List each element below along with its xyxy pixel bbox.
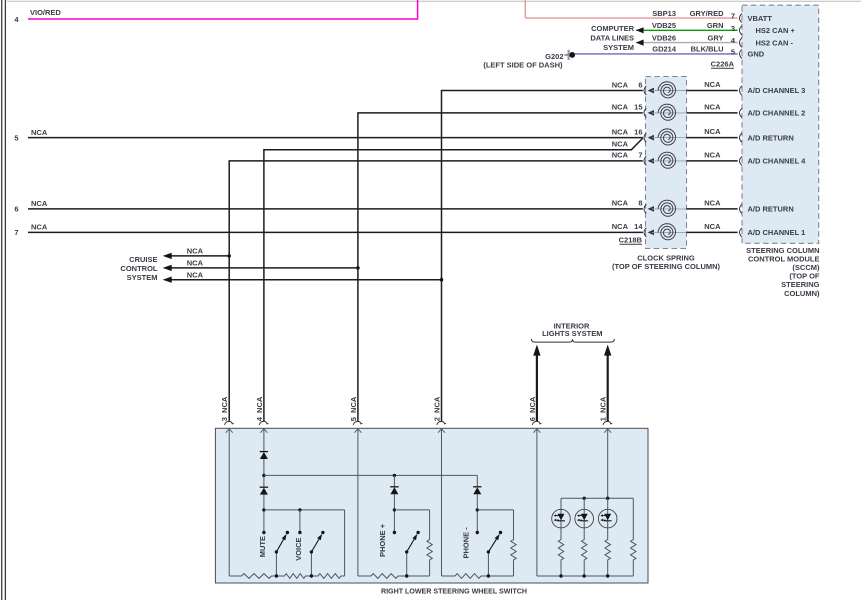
node rail voice xyxy=(310,574,313,577)
resistor phone+ branch xyxy=(427,538,432,562)
svg-text:NCA: NCA xyxy=(704,127,721,136)
wire pin3 vertical xyxy=(228,161,230,422)
switch box pin 1 connector xyxy=(603,421,612,425)
wire pin1 internal xyxy=(607,429,609,499)
svg-text:PHONE +: PHONE + xyxy=(378,523,387,557)
svg-text:8: 8 xyxy=(638,199,642,208)
wire row A/D CHANNEL 4 xyxy=(229,160,643,162)
svg-text:(TOP OF STEERING COLUMN): (TOP OF STEERING COLUMN) xyxy=(612,262,721,271)
node mid phone+ xyxy=(393,508,396,511)
switch MUTE xyxy=(262,531,265,534)
svg-text:PHONE -: PHONE - xyxy=(462,527,471,559)
page left double border xyxy=(1,0,3,600)
svg-text:GD214: GD214 xyxy=(652,45,677,54)
svg-text:A/D CHANNEL 2: A/D CHANNEL 2 xyxy=(748,109,806,118)
svg-text:5 NCA: 5 NCA xyxy=(349,396,358,421)
svg-text:CONTROL: CONTROL xyxy=(120,264,157,273)
interior lights brace xyxy=(531,339,614,342)
svg-text:COLUMN): COLUMN) xyxy=(784,289,820,298)
svg-text:NCA: NCA xyxy=(612,80,629,89)
wire 7 NCA xyxy=(28,231,643,233)
wire feed horizontal xyxy=(264,474,477,476)
svg-text:VDB25: VDB25 xyxy=(652,21,676,30)
svg-text:NCA: NCA xyxy=(704,150,721,159)
svg-text:VIO/RED: VIO/RED xyxy=(30,8,61,17)
wire row A/D CHANNEL 3 xyxy=(441,90,643,92)
svg-text:(LEFT SIDE OF DASH): (LEFT SIDE OF DASH) xyxy=(483,60,563,69)
wire GD214 BLK/BLU to GND xyxy=(575,53,738,55)
svg-text:MUTE: MUTE xyxy=(258,536,267,557)
wire row A/D CHANNEL 2 xyxy=(357,112,643,114)
node rail phone- xyxy=(487,574,490,577)
SCCM pin 5 GND xyxy=(740,49,742,58)
arrow to computer data lines (CAN-) xyxy=(636,40,644,46)
clock spring pin 14 row A/D CHANNEL 1 xyxy=(644,228,646,237)
wire pin5 vertical xyxy=(357,113,359,422)
resistor LED 1 xyxy=(558,538,563,562)
svg-text:C226A: C226A xyxy=(711,60,735,69)
svg-text:7: 7 xyxy=(731,12,735,21)
svg-text:C218B: C218B xyxy=(619,236,643,245)
svg-text:BLK/BLU: BLK/BLU xyxy=(691,45,724,54)
svg-text:NCA: NCA xyxy=(31,128,48,137)
cruise control system arrows xyxy=(170,255,229,257)
SCCM pin 4 HS2 CAN - xyxy=(740,38,742,47)
resistor rail mute-voice xyxy=(229,574,276,579)
resistor phone- branch xyxy=(511,538,516,562)
switch box pin 2 connector xyxy=(437,421,446,425)
svg-text:NCA: NCA xyxy=(31,223,48,232)
svg-text:4: 4 xyxy=(14,15,19,24)
svg-text:16: 16 xyxy=(634,127,642,136)
switch box pin 4 connector xyxy=(259,421,268,425)
svg-text:4: 4 xyxy=(731,36,736,45)
svg-text:A/D RETURN: A/D RETURN xyxy=(748,133,794,142)
wire VDB25 GRN HS2 CAN+ xyxy=(636,29,737,31)
ground G202 xyxy=(568,50,570,60)
wire pin4 vertical xyxy=(263,150,265,422)
module SCCM caption xyxy=(746,246,820,298)
svg-text:1 NCA: 1 NCA xyxy=(599,396,608,421)
svg-text:NCA: NCA xyxy=(612,151,629,160)
svg-text:HS2 CAN +: HS2 CAN + xyxy=(756,26,796,35)
svg-text:NCA: NCA xyxy=(612,103,629,112)
svg-text:GND: GND xyxy=(748,50,765,59)
switch VOICE xyxy=(298,531,301,534)
svg-text:GRN: GRN xyxy=(707,21,724,30)
wire extra NCA to pin16 xyxy=(263,149,631,151)
svg-text:VDB26: VDB26 xyxy=(652,33,676,42)
svg-text:15: 15 xyxy=(634,103,642,112)
svg-text:DATA LINES: DATA LINES xyxy=(590,34,634,43)
svg-text:NCA: NCA xyxy=(187,270,204,279)
svg-text:SYSTEM: SYSTEM xyxy=(127,273,158,282)
wire pin3 internal xyxy=(228,429,230,576)
LED 2 xyxy=(583,498,585,538)
svg-text:SYSTEM: SYSTEM xyxy=(603,43,634,52)
svg-text:5: 5 xyxy=(14,133,18,142)
interior lights system arrows xyxy=(536,353,538,422)
clock spring pin 16 row A/D RETURN xyxy=(644,133,646,142)
SCCM pin 3 HS2 CAN + xyxy=(740,26,742,35)
node mid pin4 xyxy=(262,508,265,511)
clock spring pin 6 row A/D CHANNEL 3 xyxy=(644,86,646,95)
svg-text:7: 7 xyxy=(638,151,642,160)
SCCM pin 7 VBATT xyxy=(740,14,742,23)
svg-text:6: 6 xyxy=(638,80,642,89)
svg-text:A/D RETURN: A/D RETURN xyxy=(748,205,794,214)
diode D1 xyxy=(260,452,268,459)
switch PHONE - xyxy=(476,531,479,534)
node rail phone+ xyxy=(405,574,408,577)
arrow to computer data lines (CAN+) xyxy=(636,27,644,33)
wire clock spring to SCCM A/D RETURN xyxy=(687,137,738,139)
diode D3 phone+ xyxy=(393,475,395,486)
svg-text:VBATT: VBATT xyxy=(748,14,773,23)
resistor rail phone+ xyxy=(358,574,399,579)
svg-text:A/D CHANNEL 3: A/D CHANNEL 3 xyxy=(748,86,806,95)
svg-text:3: 3 xyxy=(731,24,735,33)
svg-text:HS2 CAN -: HS2 CAN - xyxy=(756,38,794,47)
resistor rail phone- xyxy=(442,574,483,579)
svg-text:NCA: NCA xyxy=(704,102,721,111)
svg-text:NCA: NCA xyxy=(704,222,721,231)
svg-text:NCA: NCA xyxy=(31,199,48,208)
clock spring C218B box xyxy=(646,77,687,249)
wire clock spring to SCCM A/D CHANNEL 2 xyxy=(687,112,738,114)
node rail mute xyxy=(275,574,278,577)
diode D2 xyxy=(260,488,268,495)
svg-text:NCA: NCA xyxy=(704,198,721,207)
svg-text:NCA: NCA xyxy=(187,259,204,268)
svg-text:LIGHTS SYSTEM: LIGHTS SYSTEM xyxy=(542,329,602,338)
svg-text:CRUISE: CRUISE xyxy=(129,255,157,264)
svg-text:6: 6 xyxy=(14,205,18,214)
wire clock spring to SCCM A/D CHANNEL 1 xyxy=(687,231,738,233)
switch box pin 5 connector xyxy=(353,421,362,425)
svg-text:NCA: NCA xyxy=(612,199,629,208)
svg-text:3 NCA: 3 NCA xyxy=(220,396,229,421)
svg-text:GRY: GRY xyxy=(708,33,724,42)
switch box pin 6 connector xyxy=(532,421,541,425)
svg-text:VOICE: VOICE xyxy=(294,537,303,560)
switch PHONE + xyxy=(393,531,396,534)
resistor LED 3 xyxy=(605,538,610,562)
svg-text:SBP13: SBP13 xyxy=(652,9,676,18)
wire pin2 internal xyxy=(441,429,443,576)
LED 1 xyxy=(560,498,562,538)
svg-text:14: 14 xyxy=(634,222,643,231)
resistor far right xyxy=(632,498,634,538)
svg-text:6 NCA: 6 NCA xyxy=(528,396,537,421)
LED 3 xyxy=(607,498,609,538)
svg-text:5: 5 xyxy=(731,48,735,57)
wire SBP13 GRY/RED to VBATT xyxy=(524,0,526,18)
wire clock spring to SCCM A/D RETURN xyxy=(687,208,738,210)
wire pin2 vertical xyxy=(441,91,443,422)
svg-text:NCA: NCA xyxy=(187,247,204,256)
page top border xyxy=(7,0,861,2)
wire pin5 internal xyxy=(357,429,359,576)
clock spring pin 15 row A/D CHANNEL 2 xyxy=(644,108,646,117)
wire 6 NCA xyxy=(28,208,643,210)
node mid phone- xyxy=(476,508,479,511)
svg-text:NCA: NCA xyxy=(612,222,629,231)
wire VDB26 GRY HS2 CAN- xyxy=(636,42,737,44)
svg-text:NCA: NCA xyxy=(612,127,629,136)
wire pin6 internal xyxy=(536,429,538,576)
svg-text:A/D CHANNEL 1: A/D CHANNEL 1 xyxy=(748,228,806,237)
wire 5 NCA xyxy=(28,137,643,139)
clock spring pin 7 row A/D CHANNEL 4 xyxy=(644,156,646,165)
svg-text:4 NCA: 4 NCA xyxy=(255,396,264,421)
wire pin4 internal xyxy=(263,429,265,452)
svg-text:NCA: NCA xyxy=(704,80,721,89)
resistor LED 2 xyxy=(582,538,587,562)
svg-text:A/D CHANNEL 4: A/D CHANNEL 4 xyxy=(748,157,807,166)
diode D4 phone- xyxy=(476,475,478,486)
node feed pin4 xyxy=(262,474,265,477)
right lower steering wheel switch box xyxy=(215,428,648,583)
wire clock spring to SCCM A/D CHANNEL 4 xyxy=(687,160,738,162)
svg-text:NCA: NCA xyxy=(612,140,629,149)
node voice top xyxy=(298,508,301,511)
clock spring pin 8 row A/D RETURN xyxy=(644,204,646,213)
node feed phone+ xyxy=(393,474,396,477)
wire clock spring to SCCM A/D CHANNEL 3 xyxy=(687,90,738,92)
svg-text:COMPUTER: COMPUTER xyxy=(591,24,635,33)
svg-text:GRY/RED: GRY/RED xyxy=(690,9,724,18)
svg-text:7: 7 xyxy=(14,228,18,237)
wire led rail bottom xyxy=(537,575,633,577)
wire mid phone- xyxy=(477,509,513,511)
wire 4 VIO/RED xyxy=(28,18,418,20)
wire led top bus xyxy=(561,497,633,499)
module SCCM box xyxy=(742,5,819,243)
wire mid mute-voice xyxy=(264,509,345,511)
svg-text:2 NCA: 2 NCA xyxy=(433,396,442,421)
wire mid phone+ xyxy=(394,509,429,511)
switch box pin 3 connector xyxy=(225,421,234,425)
svg-text:RIGHT LOWER STEERING WHEEL SWI: RIGHT LOWER STEERING WHEEL SWITCH xyxy=(381,588,527,596)
